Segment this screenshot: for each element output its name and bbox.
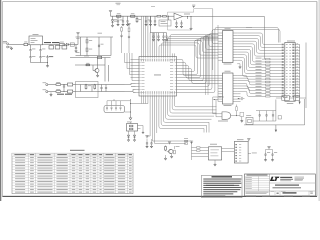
pullup resistor R11 bbox=[236, 111, 238, 116]
input jack J2 AIN+ bbox=[46, 84, 48, 86]
customer notice box bbox=[202, 175, 243, 197]
transistor Q3 bbox=[169, 149, 173, 153]
EEPROM U7 box bbox=[208, 147, 221, 160]
supply rail bbox=[111, 15, 158, 17]
label REFBUF bbox=[184, 13, 190, 16]
wire RN7 to J4 bbox=[270, 75, 282, 77]
feed column 2 cap bbox=[128, 35, 130, 36]
feed column 2 resistor bbox=[128, 26, 130, 28]
fuse F1 bbox=[24, 43, 28, 45]
resistor R1 bbox=[56, 84, 61, 86]
flag EEPROM supply bbox=[191, 142, 193, 144]
wire J5 right out bbox=[248, 153, 251, 155]
gate U6 bbox=[222, 112, 231, 119]
wire left pin lower stubs bbox=[131, 86, 136, 88]
label ANALOG INPUT bold bbox=[57, 94, 64, 95]
filter R4 bbox=[85, 84, 87, 86]
op-amp U2 bbox=[174, 13, 183, 20]
cap across inputs bbox=[63, 85, 65, 87]
dwg number DC2343A bbox=[283, 192, 297, 193]
cap C26 bbox=[272, 150, 274, 153]
wire cap bank top bbox=[113, 99, 115, 101]
EEPROM supply vertical bbox=[191, 144, 193, 160]
J4 ground bus arrow bbox=[299, 102, 301, 105]
branch rail 2 bbox=[149, 16, 151, 32]
terminal E2 GND bbox=[7, 46, 9, 48]
supply drop pin4 bbox=[147, 16, 149, 53]
cap C10 bbox=[117, 16, 119, 19]
cap C17 bbox=[176, 20, 178, 21]
series resistor RN10 bbox=[262, 84, 266, 86]
wire + up to IC bbox=[111, 84, 125, 86]
wire EEPROM to J5 a bbox=[222, 147, 235, 149]
label MAIN SUPPLY (bold) bbox=[44, 42, 51, 43]
osc cap C21 bbox=[266, 111, 268, 114]
cap C25 bbox=[265, 150, 267, 153]
cap C5 bbox=[47, 54, 49, 56]
U4 right pins bbox=[233, 32, 237, 34]
EEPROM pin wire 4 bbox=[192, 156, 209, 158]
wire U5 outputs junction 2 bbox=[213, 99, 218, 101]
series resistor RN14 bbox=[262, 95, 266, 97]
resistor R13 bbox=[174, 150, 176, 154]
ref feedback box bbox=[159, 20, 171, 26]
choke T1 bottom bbox=[68, 90, 73, 93]
osc region bottom boundary bbox=[244, 124, 305, 126]
approvals column box bbox=[269, 174, 271, 196]
title text subtitle bbox=[273, 187, 302, 188]
U3 bottom pin labels bbox=[141, 91, 142, 94]
wire after FB1 bbox=[64, 44, 66, 46]
wire comb into U3 left pins bbox=[125, 53, 136, 63]
zener Z1 stack bbox=[30, 47, 32, 48]
resistor on rail 2 bbox=[86, 64, 90, 66]
series resistor on feed 2 bbox=[185, 143, 188, 144]
wire JP4 right outputs bbox=[138, 125, 144, 127]
wire pin4 to caps bbox=[147, 99, 150, 136]
resistor R9 bbox=[163, 15, 167, 17]
osc cap C20 bbox=[259, 111, 261, 114]
wire RN12 to J4 bbox=[270, 90, 282, 92]
wire after D1 bbox=[69, 44, 79, 46]
wire cap bank top stubs bbox=[106, 101, 108, 106]
customer notice bold middle bbox=[206, 185, 234, 186]
U3 right pin stubs bbox=[177, 59, 181, 61]
approvals rows bbox=[245, 175, 270, 177]
wire U1 output bbox=[43, 44, 60, 46]
aux connector J5 pads bbox=[235, 144, 237, 145]
this-circuit text under approvals bbox=[246, 191, 269, 194]
series resistor RN9 bbox=[262, 81, 266, 83]
wire ref to first resistor row bbox=[264, 17, 266, 60]
ground Q3 area 1 bbox=[165, 155, 167, 158]
diode D1 bbox=[66, 43, 68, 45]
wire into gate B bbox=[215, 100, 217, 117]
filter R3 bbox=[85, 84, 87, 85]
customer notice text bbox=[203, 179, 241, 180]
U5 right pins bbox=[233, 75, 237, 77]
terminal E1 VIN bbox=[7, 43, 9, 45]
power flag ref bbox=[193, 6, 195, 8]
wire RN5 to J4 bbox=[270, 70, 282, 72]
jumper JP3 bbox=[62, 46, 67, 49]
wire to filter box + bbox=[73, 84, 76, 86]
bus to bottom circuits bbox=[152, 99, 191, 141]
wire RN2 to J4 bbox=[270, 61, 282, 63]
U3 bottom pin stubs bbox=[140, 96, 142, 99]
cap C12 bbox=[145, 16, 147, 19]
wire between osc boxes bbox=[289, 97, 293, 99]
power flag VDD bbox=[110, 12, 112, 14]
wire down to filter bbox=[104, 58, 106, 82]
gnd JP4 right bbox=[142, 131, 144, 132]
wire osc to connector bus bbox=[300, 97, 306, 99]
flag VCC bottom bbox=[169, 143, 171, 145]
cap C16 bbox=[163, 33, 165, 35]
module resistor Rb bbox=[86, 48, 88, 52]
wire filter to ADC drv bbox=[98, 84, 111, 86]
module resistor Ra bbox=[86, 40, 88, 44]
wire input to fuse bbox=[9, 44, 24, 46]
bus extra vertical runs bbox=[205, 35, 207, 95]
module block bottom rail bbox=[76, 55, 112, 57]
supply drop pin3 bbox=[145, 16, 147, 53]
module labels bbox=[76, 37, 79, 40]
U3 top pin stubs bbox=[140, 53, 142, 56]
feed column 2 flag bbox=[128, 25, 130, 27]
osc series resistor box R bbox=[282, 96, 290, 101]
zener D2 bbox=[112, 16, 114, 20]
aux connector J5 box bbox=[234, 142, 248, 164]
series resistor RN2 bbox=[262, 61, 266, 63]
resistor R2 bbox=[56, 91, 61, 93]
label top VCM bbox=[116, 2, 121, 5]
cap C13 bbox=[150, 16, 152, 19]
wire - up to IC bbox=[111, 91, 125, 93]
supply drop pin2 bbox=[143, 16, 145, 53]
label VIN bbox=[3, 40, 8, 43]
wire Q1 collector bbox=[97, 58, 99, 67]
wire ref bbox=[161, 15, 163, 17]
osc region right boundary bbox=[304, 99, 306, 125]
bus U5 right pins to resistors bbox=[237, 76, 262, 80]
module cap Ca bbox=[98, 44, 100, 45]
bypass cap bank box bbox=[104, 106, 125, 113]
wire pin7 stub down bbox=[156, 99, 158, 133]
bus rail vertical B bbox=[217, 25, 219, 102]
wire bus down to EEPROM area bbox=[191, 141, 193, 144]
series part U1b bbox=[70, 43, 74, 46]
wire AIN- bbox=[48, 91, 56, 93]
series resistor RN6 bbox=[262, 72, 266, 74]
series resistor RN12 bbox=[262, 90, 266, 92]
series resistor RN5 bbox=[262, 70, 266, 72]
flag caps M bbox=[266, 149, 273, 151]
table note title bbox=[70, 150, 85, 151]
zener Z2 stack bbox=[40, 45, 42, 49]
EEPROM pin wire 3 bbox=[192, 153, 209, 155]
wire RN13 to J4 bbox=[270, 92, 282, 94]
LT logo mark bbox=[270, 177, 275, 181]
part on mid rail bbox=[98, 56, 102, 58]
feed column 1 resistor bbox=[121, 26, 123, 28]
customer notice heading bbox=[212, 176, 233, 177]
input jack J3 AIN- bbox=[46, 91, 48, 93]
wire RN8 to J4 bbox=[270, 78, 282, 80]
wire R2 out bbox=[61, 91, 68, 93]
series resistor RN3 bbox=[262, 64, 266, 66]
module block top rail bbox=[76, 36, 114, 38]
wire E2 to ground bbox=[9, 46, 12, 48]
wire R1 out bbox=[61, 84, 68, 86]
cap C16b bbox=[166, 33, 168, 35]
wire AIN+ bbox=[48, 84, 56, 86]
cap C18 bbox=[181, 20, 183, 21]
wire RN3 to J4 bbox=[270, 64, 282, 66]
filter cap row bbox=[91, 85, 93, 92]
connector J4 pin pads bbox=[282, 44, 284, 46]
module block label bbox=[98, 32, 103, 35]
wire to filter box - bbox=[73, 91, 76, 93]
U3 label bbox=[154, 74, 161, 77]
J4 ground bus bbox=[299, 45, 301, 102]
osc cap rail bbox=[256, 110, 276, 112]
border bottom heavy line bbox=[2, 195, 317, 197]
osc small cap right bbox=[278, 116, 281, 119]
size dwg rev cells bbox=[274, 191, 276, 195]
ref circuit enclosure box bbox=[168, 9, 213, 30]
cap C11 bbox=[122, 16, 124, 19]
ground at jacks bbox=[50, 93, 52, 94]
cap C8 bbox=[105, 85, 107, 87]
Q2 emitter ground bbox=[241, 117, 243, 120]
U3 main ground stem bbox=[130, 99, 132, 117]
wire RN4 to J4 bbox=[270, 67, 282, 69]
osc buffer box bbox=[294, 96, 300, 101]
gate U6 label bbox=[218, 120, 228, 123]
filter R6 bbox=[94, 84, 96, 85]
buffer U5 box bbox=[223, 73, 234, 104]
filter vertical 1 bbox=[80, 85, 82, 92]
regulator U1 box bbox=[29, 36, 43, 45]
series resistor RN1 bbox=[262, 58, 266, 60]
page left scan edge bbox=[0, 0, 1, 201]
cap C23 bbox=[146, 139, 148, 142]
bus rail vertical A bbox=[212, 9, 214, 70]
supply drop to AVDD pin1 bbox=[140, 16, 142, 53]
series resistor RN11 bbox=[262, 87, 266, 89]
label clk top bbox=[246, 26, 252, 29]
module block vertical 4 bbox=[110, 37, 112, 56]
wire into gate A bbox=[212, 97, 214, 114]
wire JP4 top bbox=[130, 122, 132, 124]
filter wire + inside bbox=[76, 84, 99, 86]
U3 left pin stubs bbox=[136, 59, 140, 61]
schematic border frame bbox=[3, 2, 317, 197]
wire RN6 to J4 bbox=[270, 72, 282, 74]
osc cap bottom rail bbox=[253, 120, 276, 122]
jumper box JP4 bbox=[127, 124, 138, 132]
ground at input bbox=[11, 47, 13, 48]
ferrite FB2 on rail bbox=[117, 15, 121, 17]
ferrite FB3 on rail bbox=[131, 15, 135, 17]
cap C13b bbox=[154, 16, 156, 19]
border right line bbox=[316, 2, 318, 197]
connector J4 pin numbers bbox=[286, 43, 288, 46]
approvals header bbox=[247, 175, 268, 176]
ferrite bead FB1 bbox=[60, 43, 65, 45]
cap C3 bbox=[75, 45, 77, 47]
wire EEPROM to J5 b bbox=[222, 151, 235, 153]
filter network box bbox=[76, 82, 99, 98]
module block vertical 2 bbox=[86, 37, 88, 56]
ADC U3 package outline bbox=[139, 57, 177, 97]
wire RN10 to J4 bbox=[270, 84, 282, 86]
wire ref gnd stub bbox=[190, 17, 192, 28]
title block outer box bbox=[245, 174, 316, 196]
wire osc vertical to box1 bbox=[276, 97, 282, 99]
connector J4 outline bbox=[285, 43, 295, 102]
wire Q3 out bbox=[173, 146, 175, 149]
filter wire - inside bbox=[76, 91, 99, 93]
U4 left pins bbox=[218, 32, 222, 34]
BOM header text bbox=[14, 153, 25, 156]
J4 outer bus vertical bbox=[305, 43, 307, 109]
jumper JP1 bbox=[49, 46, 54, 49]
flag J5 top bbox=[248, 140, 250, 142]
wire J4 right pin stubs bbox=[295, 44, 299, 46]
cap C7 bbox=[101, 85, 103, 87]
supply drop pin5 bbox=[149, 33, 151, 54]
wire fuse to U1 bbox=[28, 44, 29, 46]
led D2 bbox=[128, 134, 130, 135]
wire mid rail 2 bbox=[75, 64, 105, 66]
wire rail B bbox=[30, 45, 32, 47]
crystal Y1 bbox=[246, 118, 253, 125]
BOM table h-lines bbox=[12, 155, 133, 157]
label mid rail bbox=[84, 55, 89, 58]
module block vertical 3 bbox=[98, 37, 100, 56]
ground Q3 area 2 bbox=[171, 154, 173, 156]
series resistor RN7 bbox=[262, 75, 266, 77]
bus U3 top pins to U4 (nested corners) bbox=[159, 45, 218, 58]
label top ref designator bbox=[151, 5, 155, 8]
jumper JP2 bbox=[55, 46, 60, 49]
wire cap bank to gnd stem bbox=[125, 111, 131, 113]
U3 top pin labels bbox=[141, 59, 142, 62]
wire opamp out bbox=[183, 16, 265, 18]
resistor R12 bbox=[165, 146, 167, 147]
cap C24 bbox=[151, 139, 153, 142]
wire RN1 to J4 bbox=[270, 58, 282, 60]
wire mid rail 1 bbox=[70, 57, 111, 59]
vref cap C19 bbox=[187, 17, 189, 20]
LT address text bbox=[295, 176, 305, 179]
choke T1 top bbox=[68, 83, 73, 86]
scale sheet bottom row bbox=[245, 194, 316, 196]
series resistor RN13 bbox=[262, 92, 266, 94]
cap C14 bbox=[153, 33, 155, 35]
module block vertical 1 bbox=[80, 37, 82, 56]
BOM table v-lines bbox=[27, 153, 29, 193]
U5 left pins bbox=[218, 75, 222, 77]
page right scan edge bbox=[318, 0, 320, 201]
cap near osc boxes bbox=[238, 98, 241, 100]
osc center vertical bbox=[275, 100, 277, 122]
feed column 1 cap bbox=[121, 34, 123, 35]
osc cap C22 bbox=[272, 111, 274, 114]
ground rail B bbox=[31, 62, 48, 64]
BOM table outer box bbox=[12, 153, 133, 193]
BOM table header fill bbox=[12, 153, 133, 156]
led D3 bbox=[134, 134, 136, 135]
wire up to 3V3 flag bbox=[77, 35, 79, 44]
wire ref 2 bbox=[166, 15, 174, 17]
bus U3 bottom pins nest bbox=[159, 99, 204, 129]
BOM cell text bbox=[15, 156, 25, 159]
power flag 3V3 bbox=[77, 34, 79, 36]
U5 right lower stubs bbox=[237, 93, 240, 95]
wire leds to JP4 bbox=[128, 131, 130, 134]
resistor R8 on ref rail bbox=[157, 15, 161, 17]
wire ain+ to pin bbox=[125, 84, 136, 85]
wire gate output bbox=[231, 115, 240, 117]
wire RN14 to J4 bbox=[270, 95, 282, 97]
wire flag to rail bbox=[110, 13, 112, 16]
EEPROM pullup resistor Rp2 bbox=[192, 150, 197, 152]
wire RN9 to J4 bbox=[270, 81, 282, 83]
bypass caps bbox=[106, 106, 108, 107]
J4 bottom label bbox=[287, 102, 294, 105]
bus U4 right pins nested corners bbox=[237, 33, 275, 45]
EEPROM pullup resistor Rp1 bbox=[192, 147, 197, 149]
title block divider 2 bbox=[270, 190, 316, 192]
ground arrow B bbox=[47, 63, 49, 65]
U4 bypass ground bbox=[237, 64, 240, 66]
resistor R7 bbox=[136, 17, 138, 18]
title block divider 1 bbox=[270, 182, 316, 184]
supply drop pin6 bbox=[151, 33, 153, 54]
U3 right pin labels bbox=[170, 58, 173, 61]
wire RN11 to J4 bbox=[270, 87, 282, 89]
LT logo text LINEAR TECHNOLOGY bbox=[280, 177, 292, 178]
transistor Q1 bbox=[95, 69, 99, 73]
bus bottom verticals down bbox=[203, 129, 205, 133]
series resistor on feed 1 bbox=[185, 140, 188, 141]
U3 ground bundle bbox=[140, 99, 142, 104]
supply drop pin7 bbox=[154, 33, 156, 54]
U3 left pin labels bbox=[141, 58, 144, 61]
EEPROM ground bbox=[214, 160, 216, 164]
cap C15 bbox=[158, 33, 160, 35]
buffer U4 box bbox=[223, 31, 234, 63]
wire left pin mid stubs bbox=[131, 59, 136, 61]
cap C11b bbox=[127, 16, 129, 19]
wire J4 top direct rows bbox=[275, 44, 282, 46]
bus U3 right pins vertical runs bbox=[180, 60, 218, 76]
flag below U3 bbox=[146, 137, 148, 139]
supply drop pin8 bbox=[156, 33, 158, 54]
U3 main ground arrow bbox=[130, 117, 132, 118]
wire ain- to pin bbox=[125, 90, 136, 92]
series resistor RN8 bbox=[262, 78, 266, 80]
transistor Q2 bbox=[240, 112, 244, 116]
wire U5 outputs junctions bbox=[213, 96, 224, 98]
osc clk down arrow bbox=[275, 125, 277, 130]
series resistor RN4 bbox=[262, 67, 266, 69]
title text DEMO CIRCUIT bbox=[275, 185, 299, 186]
wire Q1 emitter to gnd bbox=[97, 73, 99, 75]
